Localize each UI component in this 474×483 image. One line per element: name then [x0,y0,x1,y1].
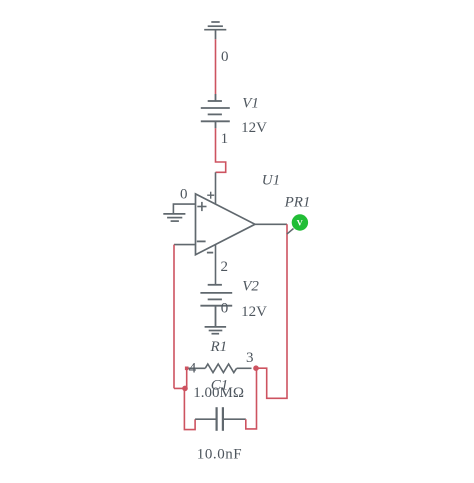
op-amp plus input marker [197,202,206,211]
op-amp minus input marker [197,240,206,242]
output wire horizontal [255,223,287,225]
op-amp U1 triangle [196,194,256,255]
wire feedback left vertical [173,245,175,389]
svg-text:V1: V1 [242,96,259,112]
wire net0 top [215,39,217,94]
wire feedback to node 4 [174,368,187,388]
capacitor C1 [195,407,246,431]
svg-text:12V: 12V [241,304,267,320]
wire + input [173,204,195,214]
svg-text:12V: 12V [241,120,267,136]
wire net1 with jog [216,128,226,172]
node 4 pin marker [185,367,189,371]
op-amp minus supply marker [207,252,213,254]
svg-text:10.0nF: 10.0nF [197,447,242,463]
wire C1 right to node 3 [246,368,257,429]
svg-text:PR1: PR1 [284,195,311,211]
battery V2 [200,285,232,327]
output wire right vertical [256,224,287,398]
wire - input horizontal [174,244,196,246]
svg-text:V: V [297,218,304,228]
op-amp pin V- [215,245,217,285]
battery V1 [201,94,230,128]
op-amp plus supply marker [207,192,214,199]
probe PR1 circle [292,214,308,230]
svg-text:U1: U1 [262,173,280,189]
svg-text:V2: V2 [242,279,259,295]
svg-text:3: 3 [246,350,254,366]
junction dot node 4 wire [182,386,188,392]
wire down to C1 left [184,388,195,429]
svg-text:1: 1 [221,131,229,147]
svg-text:2: 2 [221,259,229,275]
resistor R1 [187,364,252,373]
ground left [163,214,185,221]
svg-text:R1: R1 [210,339,228,355]
op-amp U1 pin V+ [215,172,217,204]
probe PR1 pointer [287,229,294,235]
svg-text:0: 0 [221,301,229,317]
ground top (flipped) [204,22,226,39]
ground bottom [205,327,227,334]
svg-text:1.00MΩ: 1.00MΩ [193,385,244,401]
svg-text:0: 0 [180,186,188,202]
node 3 junction dot [253,365,259,371]
svg-text:0: 0 [221,49,229,65]
svg-text:4: 4 [189,361,197,377]
